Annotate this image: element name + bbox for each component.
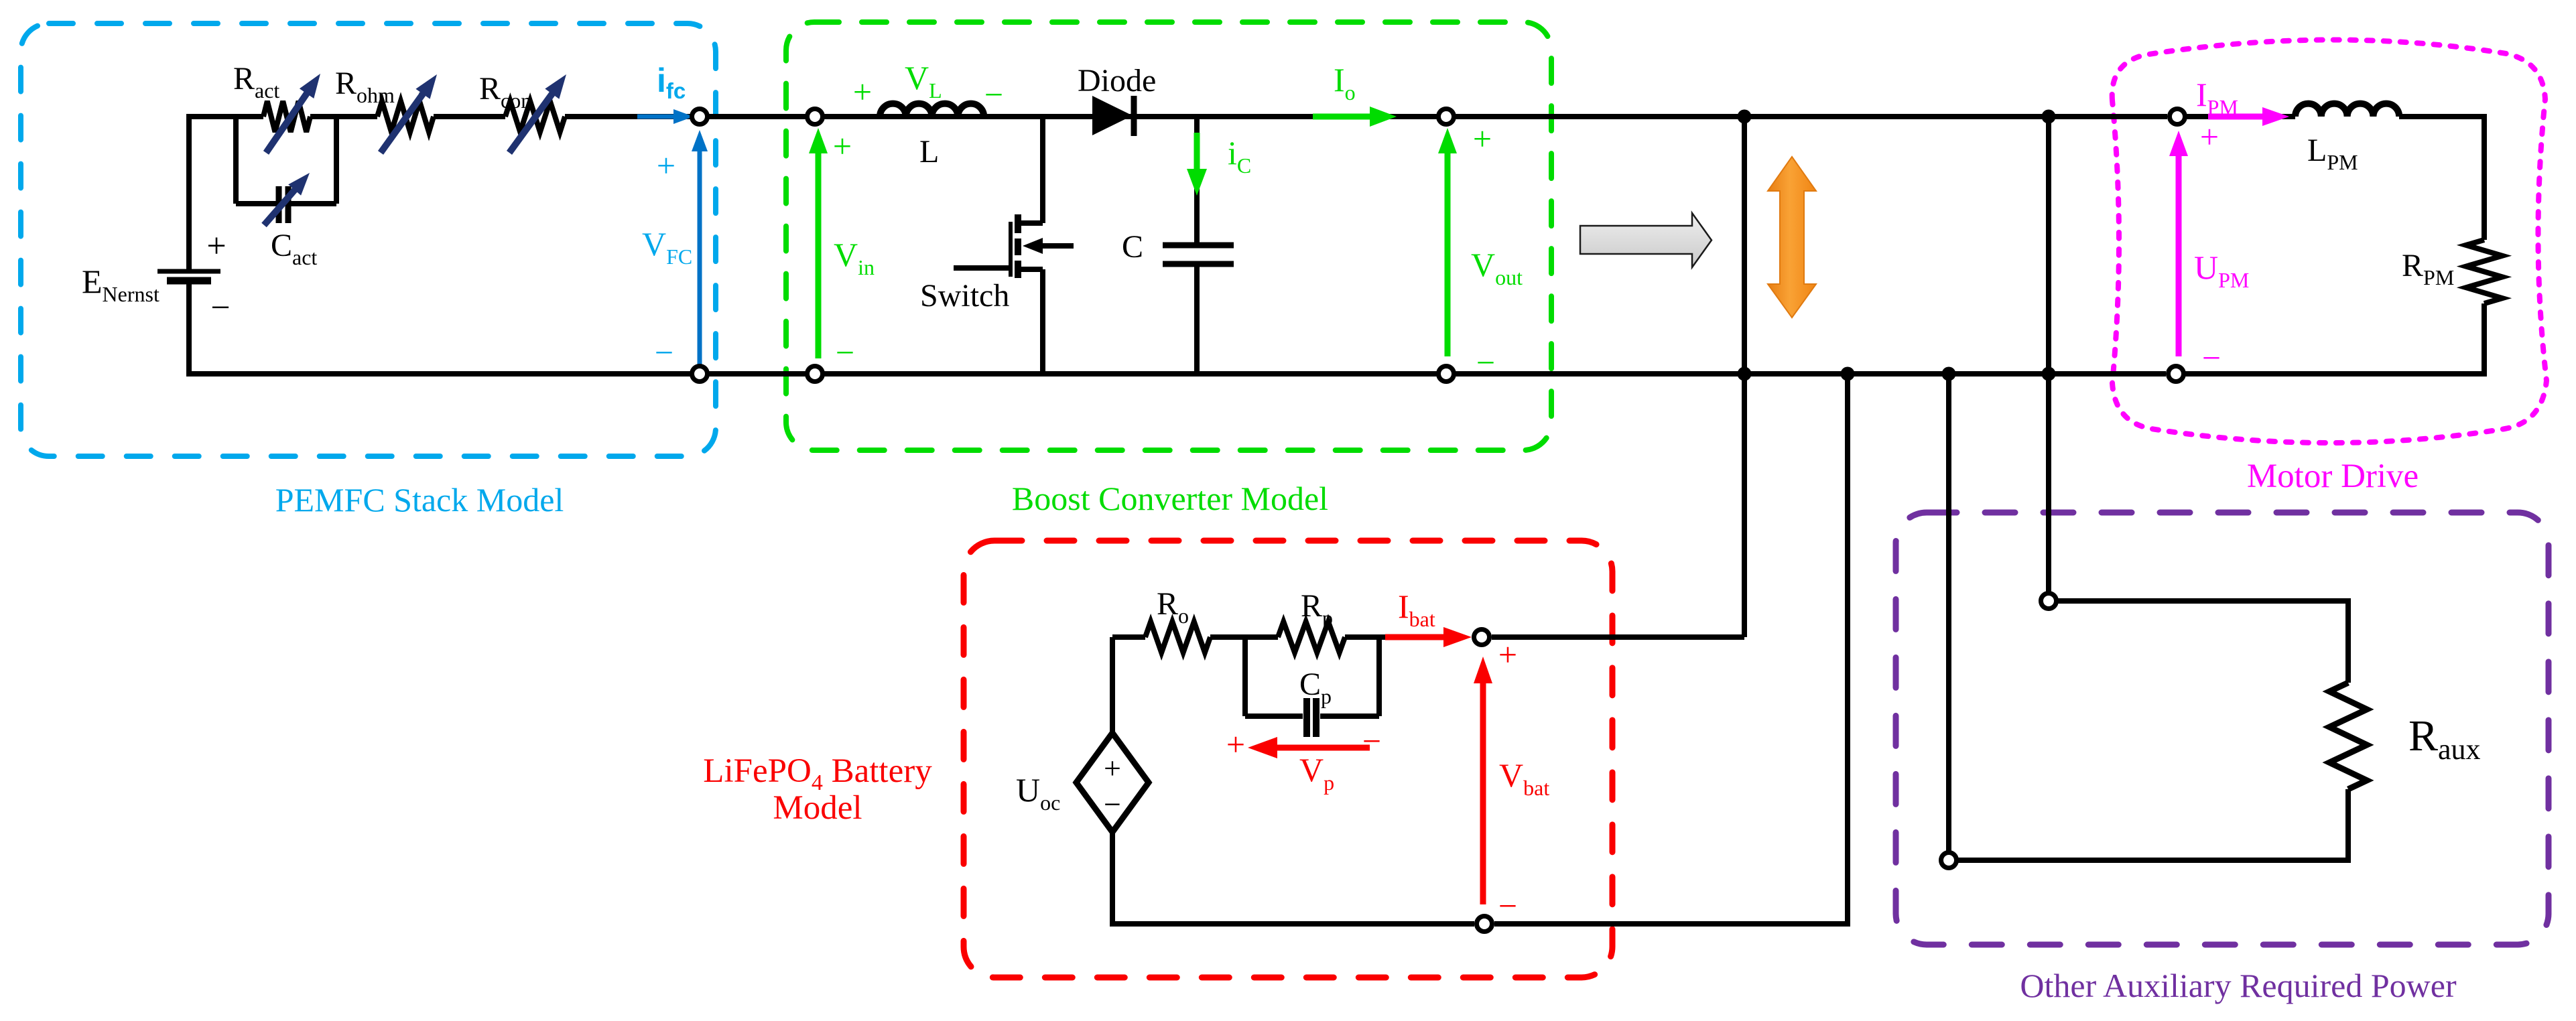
- inductor L_PM: [2295, 104, 2399, 117]
- voltage U_PM arrow: [2176, 155, 2182, 356]
- wire motor right upper: [2482, 114, 2487, 240]
- battery E_Nernst lead top: [186, 114, 192, 271]
- parallel RpCp bottom wire: [1245, 713, 1303, 719]
- node top-bus aux-top tap: [2042, 110, 2056, 124]
- wire battery-minus tap vertical: [1845, 374, 1850, 924]
- parallel RpCp left wire: [1242, 634, 1248, 716]
- capacitor C top wire: [1194, 117, 1200, 245]
- wire aux bottom horizontal: [1958, 858, 2348, 863]
- PEMFC Stack Model boundary box: [21, 23, 716, 456]
- voltage V_in arrow: [816, 152, 822, 358]
- svg-text:−: −: [655, 334, 673, 371]
- battery bottom wire: [1110, 921, 1474, 927]
- transistor switch body arrow: [1040, 243, 1074, 249]
- terminal PEMFC output bottom: [692, 366, 708, 382]
- capacitor C_p plates: [1303, 698, 1310, 737]
- terminal motor bottom: [2169, 366, 2184, 382]
- node bottom-bus aux-bottom tap: [1942, 367, 1956, 381]
- resistor R_aux: [2329, 683, 2367, 789]
- terminal boost input top: [808, 109, 823, 125]
- battery E_Nernst plates: [157, 269, 220, 274]
- capacitor C_act plates: [276, 186, 282, 223]
- svg-text:Diode: Diode: [1078, 63, 1156, 98]
- LiFePO4 Battery Model boundary box: [964, 541, 1612, 977]
- orange exchange arrow: [1768, 157, 1816, 318]
- diode D: [1092, 96, 1133, 135]
- transistor switch gate plate: [1009, 222, 1013, 277]
- wire aux-top tap vertical: [2046, 117, 2051, 592]
- svg-text:+: +: [206, 227, 226, 265]
- svg-text:−: −: [1498, 887, 1517, 925]
- wire aux right upper vertical: [2345, 598, 2351, 683]
- current i_fc arrow: [637, 115, 675, 119]
- wire motor top-right: [2399, 114, 2484, 119]
- svg-text:+: +: [833, 127, 852, 165]
- resistor R_p: [1278, 622, 1345, 653]
- transistor switch source wire: [1018, 267, 1043, 272]
- wire motor right lower: [2482, 303, 2487, 377]
- terminal battery negative: [1477, 916, 1492, 932]
- svg-text:−: −: [984, 76, 1003, 113]
- svg-text:+: +: [657, 147, 675, 184]
- svg-text:−: −: [2202, 339, 2221, 377]
- source U_oc bottom lead: [1110, 831, 1115, 927]
- resistor R_ohm variable arrow: [381, 93, 424, 153]
- transistor switch drain wire: [1040, 117, 1045, 223]
- resistor R_act variable arrow: [266, 92, 308, 153]
- svg-text:Other Auxiliary Required Power: Other Auxiliary Required Power: [2020, 967, 2457, 1004]
- voltage V_out arrow: [1445, 152, 1451, 356]
- parallel RC branch bottom wire: [236, 201, 277, 206]
- terminal boost input bottom: [808, 366, 823, 382]
- svg-text:+: +: [853, 73, 872, 111]
- wire aux right lower vertical: [2345, 789, 2351, 863]
- node bottom-bus battery-minus tap: [1841, 367, 1855, 381]
- svg-text:−: −: [210, 289, 230, 327]
- Motor Drive boundary blob: [2112, 40, 2547, 443]
- current I_PM arrow: [2208, 114, 2264, 120]
- transistor switch channel bars: [1015, 214, 1021, 233]
- terminal motor top: [2170, 109, 2185, 125]
- transistor switch gate lead: [954, 265, 1009, 271]
- voltage V_bat arrow: [1480, 682, 1486, 904]
- current I_bat arrow: [1385, 634, 1445, 640]
- terminal PEMFC output top: [692, 109, 708, 125]
- node bottom-bus aux-top tap: [2042, 367, 2056, 381]
- svg-text:−: −: [1104, 787, 1121, 821]
- wire battery-plus tap vertical: [1742, 117, 1747, 637]
- parallel RC branch right wire: [334, 114, 339, 204]
- svg-text:Switch: Switch: [920, 278, 1009, 314]
- capacitor C plates: [1163, 243, 1234, 249]
- resistor R_con: [505, 101, 565, 132]
- resistor R_ohm: [377, 101, 434, 132]
- current I_o arrow: [1313, 114, 1371, 120]
- voltage V_FC arrow: [698, 150, 702, 367]
- svg-text:+: +: [2200, 118, 2219, 155]
- source U_oc diamond: [1076, 733, 1149, 832]
- resistor R_act: [263, 101, 310, 132]
- svg-text:−: −: [1476, 344, 1495, 381]
- svg-text:Model: Model: [773, 789, 862, 827]
- Other Auxiliary Required Power boundary box: [1896, 513, 2549, 945]
- terminal battery positive: [1474, 630, 1490, 645]
- wire top bus: [189, 114, 263, 119]
- wire motor bottom: [2185, 371, 2487, 377]
- svg-text:+: +: [1226, 726, 1245, 763]
- terminal aux bottom: [1941, 853, 1957, 868]
- wire aux top horizontal: [2058, 598, 2348, 604]
- svg-text:PEMFC Stack Model: PEMFC Stack Model: [275, 481, 564, 519]
- node top-bus battery tap: [1738, 110, 1752, 124]
- current i_C arrow: [1194, 133, 1200, 170]
- parallel RpCp right wire: [1376, 634, 1382, 716]
- capacitor C_act variable arrow: [264, 189, 296, 225]
- wire aux-bottom tap vertical: [1946, 374, 1951, 851]
- battery E_Nernst lead bottom: [186, 281, 192, 377]
- svg-text:−: −: [836, 334, 854, 371]
- svg-text:+: +: [1104, 751, 1121, 785]
- source U_oc top lead: [1110, 637, 1115, 734]
- svg-text:Motor Drive: Motor Drive: [2247, 458, 2419, 495]
- voltage V_p arrow: [1276, 745, 1370, 751]
- Boost Converter Model boundary box: [786, 22, 1551, 450]
- capacitor C bottom wire: [1194, 264, 1200, 374]
- terminal aux top: [2041, 594, 2057, 609]
- svg-text:+: +: [1498, 636, 1517, 673]
- resistor R_con variable arrow: [509, 93, 553, 153]
- inductor L: [880, 104, 984, 117]
- node bottom-bus battery tap: [1738, 367, 1752, 381]
- svg-text:−: −: [1362, 722, 1381, 760]
- parallel RC branch left wire: [233, 114, 239, 204]
- wire motor top: [2187, 114, 2295, 119]
- battery top wire: [1112, 634, 1145, 640]
- svg-text:L: L: [919, 134, 939, 169]
- svg-text:+: +: [1473, 120, 1492, 157]
- resistor R_o: [1145, 622, 1210, 653]
- wire battery-minus horizontal: [1494, 921, 1850, 927]
- svg-text:Boost Converter Model: Boost Converter Model: [1012, 480, 1328, 517]
- wire bottom bus: [189, 371, 2166, 377]
- wire battery-plus horizontal: [1492, 634, 1744, 640]
- svg-text:C: C: [1122, 229, 1143, 265]
- terminal boost output top: [1439, 109, 1454, 125]
- resistor R_PM: [2466, 240, 2502, 303]
- terminal boost output bottom: [1439, 366, 1454, 382]
